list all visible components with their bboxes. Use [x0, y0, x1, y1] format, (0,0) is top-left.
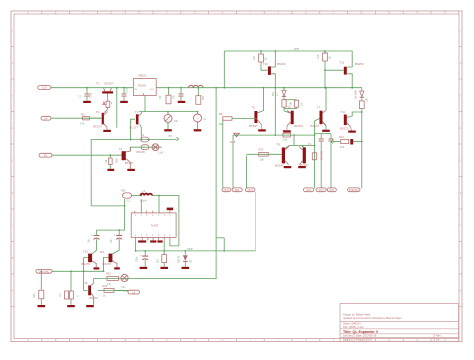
- ground P3: [164, 129, 172, 131]
- svg-text:10u: 10u: [88, 238, 91, 243]
- wire row3: [52, 154, 122, 156]
- svg-text:OUT: OUT: [329, 188, 335, 192]
- connector tag OUT3: [304, 188, 314, 192]
- lamp LA2: [121, 274, 128, 289]
- diode D1: [103, 96, 110, 113]
- transistor T6 BC547: [287, 105, 303, 128]
- ground R23: [38, 305, 46, 307]
- transistor T14 BS170: [99, 239, 119, 267]
- resistor R21: [103, 284, 115, 297]
- label T2: [94, 110, 103, 128]
- svg-text:BC177: BC177: [130, 126, 139, 130]
- diode D4: [356, 90, 364, 99]
- resistor R16: [339, 135, 349, 149]
- svg-text:1N 4148: 1N 4148: [356, 90, 358, 99]
- svg-text:T2: T2: [96, 110, 100, 114]
- wire long riser V2: [215, 88, 217, 280]
- transistor T13 BS170: [82, 239, 97, 267]
- node P1 out: [148, 139, 150, 141]
- svg-text:R2: R2: [81, 113, 85, 117]
- wire cap risers mid: [321, 144, 331, 189]
- wire T3 base link: [130, 119, 135, 140]
- transistor T12 BS250: [340, 61, 364, 75]
- wire zener to pair: [284, 97, 297, 100]
- net label UPP top: [294, 47, 300, 51]
- svg-text:BC547: BC547: [295, 124, 304, 128]
- transistor T3: [130, 110, 142, 130]
- svg-text:J: J: [278, 340, 279, 342]
- wire V2 jog: [216, 237, 224, 239]
- svg-text:T7: T7: [317, 105, 321, 109]
- node rail R stub: [260, 50, 262, 54]
- ground T6: [283, 126, 291, 133]
- wire zener stub: [283, 88, 285, 90]
- inductor L1: [141, 194, 153, 196]
- svg-text:LS: LS: [132, 290, 135, 294]
- svg-text:R20: R20: [121, 190, 126, 193]
- wire UPP top rail: [224, 50, 352, 52]
- label D1: [111, 103, 113, 105]
- resistor R8: [219, 112, 233, 126]
- capacitor C3: [179, 87, 184, 101]
- ground T11: [348, 127, 356, 133]
- svg-text:T6: T6: [288, 105, 292, 109]
- wire T7 base: [314, 119, 320, 189]
- svg-text:T10: T10: [263, 62, 268, 66]
- diode D2: [178, 251, 193, 267]
- capacitor C10: [140, 250, 149, 267]
- svg-text:BS250: BS250: [277, 62, 286, 66]
- svg-text:J: J: [278, 13, 279, 15]
- fuse P1: [141, 133, 149, 142]
- svg-text:BC547: BC547: [311, 124, 320, 128]
- wire row2: [51, 117, 102, 119]
- connector CAS MIC: [36, 269, 52, 273]
- zener Z1: [272, 90, 286, 96]
- transistor T8 BC547: [275, 142, 289, 167]
- resistor R12: [312, 151, 322, 161]
- svg-text:1A: 1A: [436, 338, 439, 342]
- svg-text:T11: T11: [341, 110, 346, 114]
- wire UPP riser top: [223, 51, 225, 88]
- wire T12 source: [347, 51, 352, 67]
- wire P2 row: [130, 147, 162, 151]
- svg-text:OUT: OUT: [224, 188, 230, 192]
- ground C10: [136, 256, 148, 269]
- node cap stub B: [118, 229, 120, 235]
- wire IC loop: [159, 196, 179, 246]
- connector X3: [39, 153, 52, 157]
- connector X2: [41, 116, 51, 120]
- svg-text:12V: 12V: [42, 86, 47, 90]
- resistor R4: [196, 87, 205, 105]
- svg-text:BS170: BS170: [340, 127, 349, 131]
- svg-text:R13: R13: [259, 148, 264, 152]
- wire row1 after regulator: [156, 87, 352, 89]
- ground C2: [120, 101, 128, 103]
- wire T12 gate: [325, 61, 343, 70]
- svg-text:5V1: 5V1: [272, 91, 275, 96]
- svg-text:R5 DW: R5 DW: [137, 150, 146, 154]
- svg-text:100n: 100n: [127, 87, 129, 93]
- ground C3: [178, 101, 186, 103]
- resistor R23: [33, 271, 44, 305]
- diode D3: [230, 133, 240, 144]
- connector tag PHONO: [348, 188, 360, 192]
- svg-text:OUT: OUT: [306, 188, 312, 192]
- ground T14: [114, 267, 120, 269]
- node IC feed junction: [124, 205, 126, 207]
- wire IC pin drop: [132, 195, 160, 213]
- wire tag riser A: [222, 119, 224, 189]
- wire lamp row: [94, 279, 216, 284]
- svg-text:+: +: [114, 233, 116, 237]
- capacitor C12: [110, 233, 122, 243]
- wire T12 drain: [347, 74, 352, 88]
- wire R12 riser: [0, 0, 1, 1]
- capacitor C5: [319, 139, 324, 145]
- wire string down: [361, 109, 363, 189]
- capacitor C8: [350, 139, 353, 145]
- svg-text:4148: 4148: [230, 140, 236, 144]
- svg-text:C3: C3: [172, 95, 176, 99]
- svg-text:0V: 0V: [44, 116, 47, 120]
- svg-text:BS170: BS170: [103, 262, 112, 266]
- label T1: [96, 81, 114, 85]
- resistor R24: [59, 291, 80, 305]
- svg-text:PHONO: PHONO: [349, 188, 359, 192]
- svg-text:Title: QL Expander V: Title: QL Expander V: [343, 330, 379, 334]
- svg-text:78L05: 78L05: [138, 84, 147, 88]
- svg-text:BC547: BC547: [94, 124, 103, 128]
- fuse P2: [137, 145, 149, 154]
- svg-text:R12 10k: R12 10k: [320, 151, 323, 161]
- svg-text:T13: T13: [83, 249, 88, 253]
- node CAS junction 2: [83, 270, 85, 272]
- resistor R9: [283, 130, 291, 142]
- resistor R20: [121, 190, 132, 203]
- svg-text:R3: R3: [158, 95, 162, 99]
- svg-text:UPP: UPP: [294, 47, 300, 51]
- svg-text:OUT: OUT: [247, 188, 253, 192]
- svg-text:T15: T15: [83, 281, 88, 285]
- svg-text:P1: P1: [141, 133, 145, 137]
- wire row mid 2: [233, 134, 315, 136]
- transistor T11 BS170: [340, 110, 351, 130]
- wire T10 gate: [261, 62, 267, 70]
- node rail R2 stub: [324, 50, 326, 54]
- svg-text:R16: R16: [339, 135, 344, 139]
- svg-text:C: C: [77, 295, 80, 297]
- svg-text:T14: T14: [99, 250, 104, 254]
- svg-text:10k: 10k: [219, 122, 224, 126]
- svg-text:1M: 1M: [301, 103, 304, 106]
- resistor R3: [158, 87, 171, 104]
- wire R16 row: [333, 141, 363, 143]
- svg-text:BC547: BC547: [275, 163, 284, 167]
- transistor T1 BC327: [102, 88, 113, 97]
- wire T8T9 bridge: [285, 146, 306, 149]
- svg-text:Lite Seq: 1 Date: 2015-05-18: Lite Seq: 1 Date: 2015-05-18: [343, 334, 377, 338]
- wire riser x315: [0, 0, 1, 1]
- svg-text:5V: 5V: [169, 134, 173, 138]
- transistor T9 BC547: [299, 142, 312, 167]
- svg-text:G: G: [204, 117, 206, 121]
- svg-text:17k: 17k: [80, 122, 85, 126]
- wire gate riser down: [324, 69, 326, 88]
- wire T7 collector: [325, 87, 327, 110]
- wire T13 gate riser: [84, 258, 89, 272]
- svg-text:2M2: 2M2: [115, 158, 118, 163]
- svg-text:LA1: LA1: [159, 150, 164, 154]
- svg-text:R14: R14: [253, 55, 256, 60]
- transistor T10 BS250: [263, 62, 286, 75]
- capacitor C1: [80, 87, 93, 101]
- ground T2: [103, 127, 111, 132]
- label L1: [140, 189, 147, 203]
- svg-text:1M: 1M: [59, 294, 62, 297]
- node row1/V1: [223, 87, 225, 89]
- wire diode string: [351, 87, 361, 91]
- svg-text:O: O: [416, 13, 418, 15]
- svg-text:R8: R8: [219, 112, 223, 116]
- resistor R2: [83, 117, 102, 120]
- wire cap stub A: [96, 230, 98, 235]
- svg-text:T3: T3: [135, 110, 139, 114]
- wire R21 row: [98, 289, 128, 291]
- connector tag OUT2: [246, 188, 255, 192]
- resistor R11: [294, 100, 303, 107]
- net flag R16: [331, 140, 333, 144]
- svg-text:G: G: [194, 340, 196, 342]
- svg-text:M: M: [361, 13, 363, 15]
- svg-text:PA1: PA1: [235, 188, 240, 192]
- wire reg gnd drop: [144, 96, 146, 112]
- transistor T4 BS170: [119, 147, 134, 169]
- connector LS: [114, 290, 140, 294]
- node row1/V2: [215, 87, 217, 89]
- resistor R19: [157, 251, 167, 267]
- ground D2: [182, 267, 190, 269]
- ground R19: [160, 267, 168, 269]
- resistor R6: [105, 154, 118, 168]
- resistor R10: [282, 100, 293, 107]
- resistor R15: [317, 53, 332, 61]
- svg-text:10k: 10k: [340, 145, 345, 149]
- svg-text:10k: 10k: [283, 138, 288, 142]
- svg-text:9V: 9V: [44, 153, 47, 157]
- svg-text:T12: T12: [340, 61, 345, 65]
- node row1 zener: [283, 87, 285, 89]
- svg-text:File: QIMSI_2.sch: File: QIMSI_2.sch: [343, 325, 364, 329]
- wire T15 gate riser: [84, 271, 88, 290]
- svg-text:BS250: BS250: [355, 62, 364, 66]
- connector tag PA1: [232, 188, 242, 192]
- wire pair join: [284, 107, 297, 113]
- ground T5: [258, 125, 266, 132]
- transistor T7 BC547: [311, 105, 327, 127]
- node row1 T5: [263, 87, 265, 89]
- wire diode-res link: [361, 98, 363, 101]
- wire reg bottom row: [139, 111, 198, 113]
- wire T10 source: [271, 50, 276, 67]
- wire cap stubs mid: [321, 134, 331, 139]
- transistor T2 BC547: [102, 112, 108, 128]
- ground T7: [322, 130, 330, 132]
- svg-text:16V: 16V: [202, 95, 205, 100]
- svg-text:10u: 10u: [110, 238, 113, 243]
- regulator REG1 78L05: [133, 74, 156, 96]
- svg-text:2k2: 2k2: [157, 258, 160, 263]
- wire T7 emitter link: [323, 122, 327, 130]
- svg-text:Design by: Rafael Vasili: Design by: Rafael Vasili: [343, 312, 371, 316]
- svg-text:R15: R15: [317, 54, 320, 59]
- resistor R17: [359, 97, 368, 108]
- svg-text:BS170: BS170: [82, 262, 91, 266]
- ground R24: [67, 305, 75, 307]
- svg-text:updated and converted to EAGLE: updated and converted to EAGLE by Marcel…: [343, 316, 402, 320]
- wire V3 riser: [224, 192, 255, 251]
- svg-text:OUT: OUT: [318, 188, 324, 192]
- svg-text:T1: T1: [96, 81, 100, 85]
- svg-text:OUT: OUT: [150, 89, 155, 91]
- wire bridge stub: [293, 134, 295, 145]
- node UPP bottom junctions: [135, 240, 187, 252]
- ground T15: [86, 305, 94, 307]
- capacitor C9: [167, 208, 174, 211]
- wire UPP bottom row: [136, 250, 256, 252]
- svg-text:100n: 100n: [91, 92, 93, 98]
- svg-text:100uH: 100uH: [140, 199, 147, 202]
- ground IC pin1: [138, 240, 162, 242]
- svg-text:T5: T5: [252, 106, 256, 110]
- svg-text:SB140: SB140: [178, 255, 181, 263]
- connector tag OUT1: [222, 188, 231, 192]
- wire left long riser: [90, 140, 92, 206]
- svg-text:T9: T9: [308, 142, 312, 146]
- op-amp U1 TL497: [131, 195, 176, 241]
- svg-text:BC547: BC547: [249, 124, 258, 128]
- wire row1 coil resume: [0, 0, 1, 1]
- title block: [340, 304, 459, 342]
- node P row junction: [140, 124, 143, 140]
- svg-text:BS170: BS170: [90, 296, 99, 300]
- capacitor C11: [88, 233, 100, 243]
- svg-text:R23: R23: [33, 293, 36, 298]
- ground T4: [127, 169, 135, 171]
- transistor T15 BS170: [83, 281, 99, 305]
- wire T14 gate riser: [103, 257, 109, 272]
- wire T5 collector riser: [257, 88, 263, 113]
- resistor R13: [259, 148, 269, 162]
- potentiometer P3: [164, 111, 179, 129]
- svg-text:+: +: [91, 233, 93, 237]
- svg-text:BS170: BS170: [125, 161, 134, 165]
- ground G1: [194, 129, 202, 131]
- lamp LA1: [152, 144, 164, 155]
- transistor T5 BC547: [249, 106, 262, 129]
- inductor L2: [189, 85, 204, 87]
- svg-text:R22: R22: [106, 272, 111, 276]
- label C3: [172, 95, 176, 99]
- resistor R14: [253, 54, 268, 62]
- wire cap row mid: [315, 133, 332, 135]
- wire R23 stub: [40, 270, 42, 272]
- connector tag OUT4: [316, 188, 326, 192]
- svg-text:T4: T4: [119, 147, 123, 151]
- svg-text:G: G: [194, 13, 196, 15]
- svg-text:10k: 10k: [260, 157, 265, 161]
- capacitor C6: [329, 139, 337, 144]
- svg-text:T8: T8: [277, 142, 281, 146]
- wire cap feed: [97, 206, 125, 230]
- ground R6: [107, 169, 114, 171]
- svg-text:Size E13.6 Plot: 23.03.07: Size E13.6 Plot: 23.03.07: [343, 338, 373, 342]
- ground T9: [298, 166, 306, 168]
- svg-text:REG1: REG1: [139, 74, 148, 78]
- svg-text:+: +: [140, 254, 142, 258]
- resistor R22: [106, 272, 118, 286]
- wire T10 drain: [271, 74, 276, 136]
- wire IC feed row: [91, 199, 124, 206]
- connector X1 12V: [38, 86, 52, 90]
- label R2: [80, 113, 85, 126]
- svg-text:~: ~: [196, 117, 198, 121]
- capacitor C2: [122, 87, 129, 101]
- ground T13: [94, 267, 100, 269]
- wire bridge to R12: [301, 145, 314, 147]
- current source G1: [194, 111, 206, 129]
- wire P1 row: [91, 139, 176, 141]
- wire tag riser C: [245, 156, 247, 189]
- ground C1: [83, 101, 91, 103]
- wire T11 collector: [347, 111, 363, 117]
- wire CAS row: [52, 270, 104, 272]
- wire row mid base T8: [246, 153, 282, 155]
- net flag 5V: [169, 134, 179, 141]
- wire row mid base T5: [116, 87, 255, 128]
- svg-text:UPP: UPP: [187, 247, 193, 251]
- svg-text:100u: 100u: [136, 256, 139, 262]
- svg-text:BC327: BC327: [105, 81, 115, 85]
- svg-text:TL497: TL497: [151, 223, 159, 227]
- svg-text:R21: R21: [103, 284, 108, 288]
- svg-text:Rev:: Rev:: [436, 334, 442, 338]
- net label UPP bottom: [187, 247, 193, 251]
- connector tag OUT5: [327, 188, 336, 192]
- wire row1 +9V rail: [51, 87, 133, 89]
- ground T8: [284, 166, 292, 168]
- wire tag riser B: [232, 135, 234, 188]
- node CAS junction 1: [70, 270, 72, 291]
- svg-text:CAS MIC: CAS MIC: [39, 270, 50, 274]
